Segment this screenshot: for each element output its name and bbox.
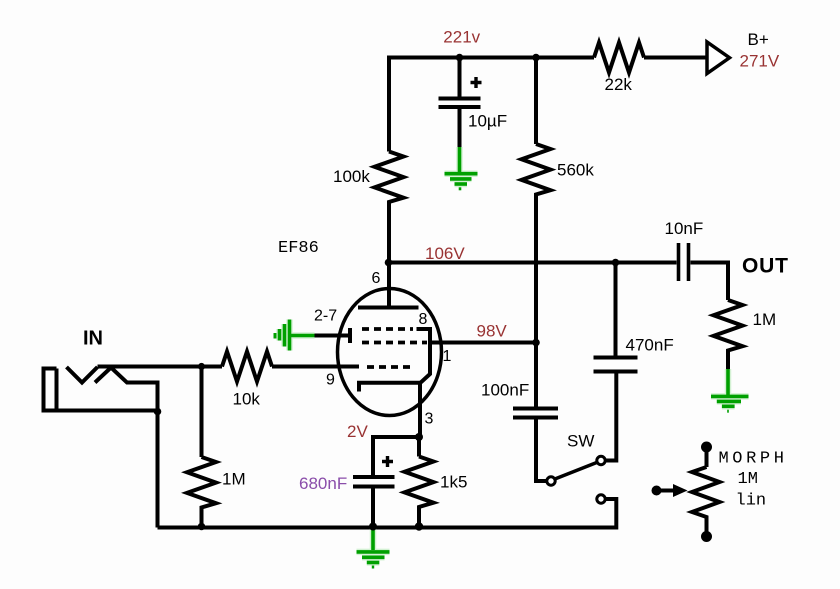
svg-text:2V: 2V [347,422,368,441]
svg-text:100k: 100k [333,167,370,186]
svg-text:OUT: OUT [742,255,789,278]
svg-text:98V: 98V [477,322,508,341]
svg-text:1M: 1M [738,470,758,489]
svg-text:680nF: 680nF [299,474,347,493]
svg-text:8: 8 [419,311,428,328]
svg-text:IN: IN [83,328,103,350]
svg-text:100nF: 100nF [481,381,529,400]
svg-text:271V: 271V [740,52,780,71]
svg-text:MORPH: MORPH [719,449,788,468]
svg-text:560k: 560k [557,161,594,180]
svg-text:EF86: EF86 [278,239,319,258]
svg-text:470nF: 470nF [626,336,674,355]
svg-text:3: 3 [425,411,434,428]
svg-text:1k5: 1k5 [440,473,467,492]
svg-text:221v: 221v [443,28,480,47]
svg-text:106V: 106V [425,244,465,263]
svg-text:lin: lin [736,492,767,511]
svg-text:1M: 1M [753,310,777,329]
svg-text:10µF: 10µF [468,112,507,131]
svg-text:22k: 22k [605,75,633,94]
svg-text:B+: B+ [748,30,769,49]
svg-text:2-7: 2-7 [314,308,337,325]
svg-text:1M: 1M [222,470,246,489]
svg-text:10k: 10k [233,390,261,409]
svg-text:10nF: 10nF [665,219,704,238]
svg-text:1: 1 [443,348,452,365]
svg-text:6: 6 [372,270,381,287]
svg-text:SW: SW [567,432,594,451]
svg-text:9: 9 [326,372,335,389]
